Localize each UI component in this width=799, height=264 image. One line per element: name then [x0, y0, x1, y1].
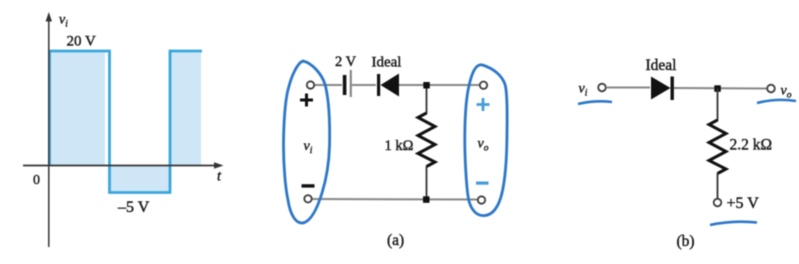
svg-text:(a): (a) — [387, 232, 404, 249]
svg-text:t: t — [217, 169, 222, 185]
svg-text:20 V: 20 V — [67, 34, 96, 50]
svg-text:+5 V: +5 V — [727, 195, 760, 212]
svg-text:vi: vi — [59, 13, 68, 30]
svg-text:Ideal: Ideal — [646, 57, 677, 74]
svg-text:1 kΩ: 1 kΩ — [385, 138, 414, 154]
svg-text:(b): (b) — [677, 233, 695, 250]
svg-text:vi: vi — [304, 139, 313, 156]
svg-text:2 V: 2 V — [335, 54, 357, 70]
svg-text:vi: vi — [579, 82, 588, 99]
svg-text:0: 0 — [33, 173, 40, 188]
svg-text:–5 V: –5 V — [117, 199, 150, 216]
svg-text:Ideal: Ideal — [372, 55, 402, 71]
svg-text:vo: vo — [478, 137, 489, 154]
svg-text:vo: vo — [781, 84, 792, 101]
svg-text:2.2 kΩ: 2.2 kΩ — [730, 137, 773, 154]
